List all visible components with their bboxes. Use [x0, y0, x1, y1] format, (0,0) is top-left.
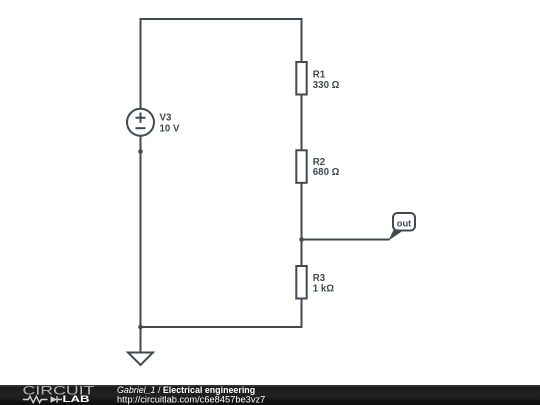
wire left vertical (V3 top lead) — [140, 18, 142, 109]
logo diode — [51, 396, 58, 402]
node dot below V3 — [138, 149, 143, 154]
node dot out junction — [299, 237, 304, 242]
wire R2 to node — [301, 182, 303, 239]
wire top horizontal — [140, 18, 303, 20]
resistor R3 — [296, 266, 306, 299]
svg-text:680 Ω: 680 Ω — [313, 167, 340, 178]
wire node to out flag — [302, 239, 390, 241]
wire V3 bottom lead to node — [140, 136, 142, 152]
wire left vertical to bottom junction — [140, 152, 142, 328]
wire R1 top lead — [301, 18, 303, 62]
out flag bubble — [393, 213, 415, 231]
voltage source V3 — [127, 109, 154, 136]
node dot bottom junction — [138, 325, 143, 330]
resistor R1 — [296, 62, 306, 95]
resistor R2 — [296, 150, 306, 183]
svg-text:http://circuitlab.com/c6e8457b: http://circuitlab.com/c6e8457be3vz7 — [117, 395, 265, 405]
svg-text:R1: R1 — [313, 69, 326, 80]
svg-text:R2: R2 — [313, 157, 325, 168]
logo resistor zigzag — [23, 396, 48, 402]
svg-text:out: out — [397, 219, 411, 229]
svg-text:10 V: 10 V — [160, 124, 180, 135]
footer bar — [0, 385, 540, 405]
wire node to R3 — [301, 240, 303, 267]
svg-text:LAB: LAB — [63, 394, 90, 405]
svg-text:1 kΩ: 1 kΩ — [313, 284, 334, 295]
svg-text:R3: R3 — [313, 273, 326, 284]
svg-text:V3: V3 — [160, 113, 172, 124]
wire R1-R2 — [301, 94, 303, 151]
ground — [128, 353, 153, 366]
wire bottom horizontal — [141, 326, 302, 328]
out flag tail — [389, 230, 405, 241]
wire ground stub — [140, 327, 142, 353]
wire R3 bottom lead — [301, 298, 303, 328]
svg-text:330 Ω: 330 Ω — [313, 80, 340, 91]
